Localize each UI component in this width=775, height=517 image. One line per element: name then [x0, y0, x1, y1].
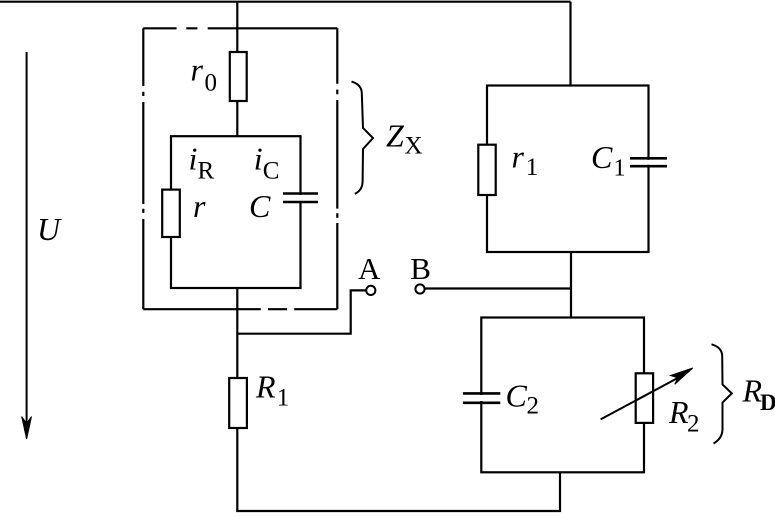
wire: top bus from source to right branch — [0, 1, 571, 3]
wire: node A branch — [237, 290, 365, 333]
svg-text:0: 0 — [205, 70, 218, 97]
resistor R1 — [229, 378, 247, 428]
resistor r — [162, 190, 180, 237]
svg-text:R: R — [255, 369, 276, 405]
resistor r1 — [478, 145, 495, 195]
node box: inner parallel rC loop — [171, 136, 301, 288]
capacitor C2 (gap in left edge) — [474, 395, 488, 401]
svg-text:R: R — [668, 394, 689, 430]
svg-text:B: B — [410, 251, 431, 286]
capacitor C (gap in right edge) — [294, 195, 307, 201]
svg-text:1: 1 — [277, 385, 290, 412]
dash-dot boundary box of Zx: bottom edge — [143, 308, 337, 310]
svg-text:1: 1 — [614, 155, 626, 181]
svg-text:R: R — [198, 157, 215, 184]
wire: node B branch to right bridge — [425, 287, 571, 289]
svg-text:r: r — [512, 139, 525, 175]
wire: r1 box to C2/R2 box — [570, 252, 572, 318]
svg-text:U: U — [37, 211, 62, 247]
dash-dot boundary box of Zx: top edge — [143, 27, 337, 29]
svg-text:A: A — [358, 251, 381, 286]
svg-text:C: C — [591, 139, 613, 175]
svg-text:D: D — [760, 390, 775, 415]
node B terminal circle — [415, 284, 424, 293]
svg-text:r: r — [191, 52, 204, 88]
wire: inner box down to R1 — [236, 288, 238, 378]
voltage arrow U line — [26, 52, 28, 424]
wire: R1 down to bottom bus — [236, 428, 238, 511]
resistor R2 (variable) — [636, 373, 653, 423]
node A terminal circle — [366, 286, 375, 295]
wire: r0 to inner rC box — [236, 101, 238, 136]
node box: r1/C1 parallel loop — [487, 86, 649, 253]
capacitor C1 (gap in right edge) — [642, 160, 655, 165]
arrow of variable resistor R2 — [601, 377, 679, 419]
svg-text:C: C — [249, 188, 271, 224]
resistor r0 — [230, 52, 247, 101]
svg-text:1: 1 — [526, 154, 539, 181]
wire: left branch from top bus down to r0 — [236, 2, 238, 52]
svg-text:i: i — [189, 140, 198, 176]
dash-dot boundary box of Zx: left edge — [142, 28, 144, 309]
voltage arrow U head — [22, 417, 32, 440]
svg-text:X: X — [405, 132, 423, 159]
svg-text:2: 2 — [527, 393, 540, 420]
svg-text:C: C — [263, 158, 280, 185]
svg-text:2: 2 — [687, 410, 700, 437]
svg-text:r: r — [193, 188, 206, 224]
brace for Zx — [352, 82, 374, 194]
arrowhead of variable resistor R2 — [671, 368, 693, 384]
svg-text:Z: Z — [386, 117, 405, 153]
wire: bottom bus to C2/R2 box — [236, 472, 560, 511]
svg-text:i: i — [254, 140, 263, 176]
dash-dot boundary box of Zx: right edge — [336, 28, 338, 309]
svg-text:C: C — [506, 377, 528, 413]
brace for RD — [712, 344, 732, 443]
node box: C2/R2 parallel loop — [481, 318, 644, 473]
wire: right branch drop to r1/C1 box — [569, 2, 571, 86]
